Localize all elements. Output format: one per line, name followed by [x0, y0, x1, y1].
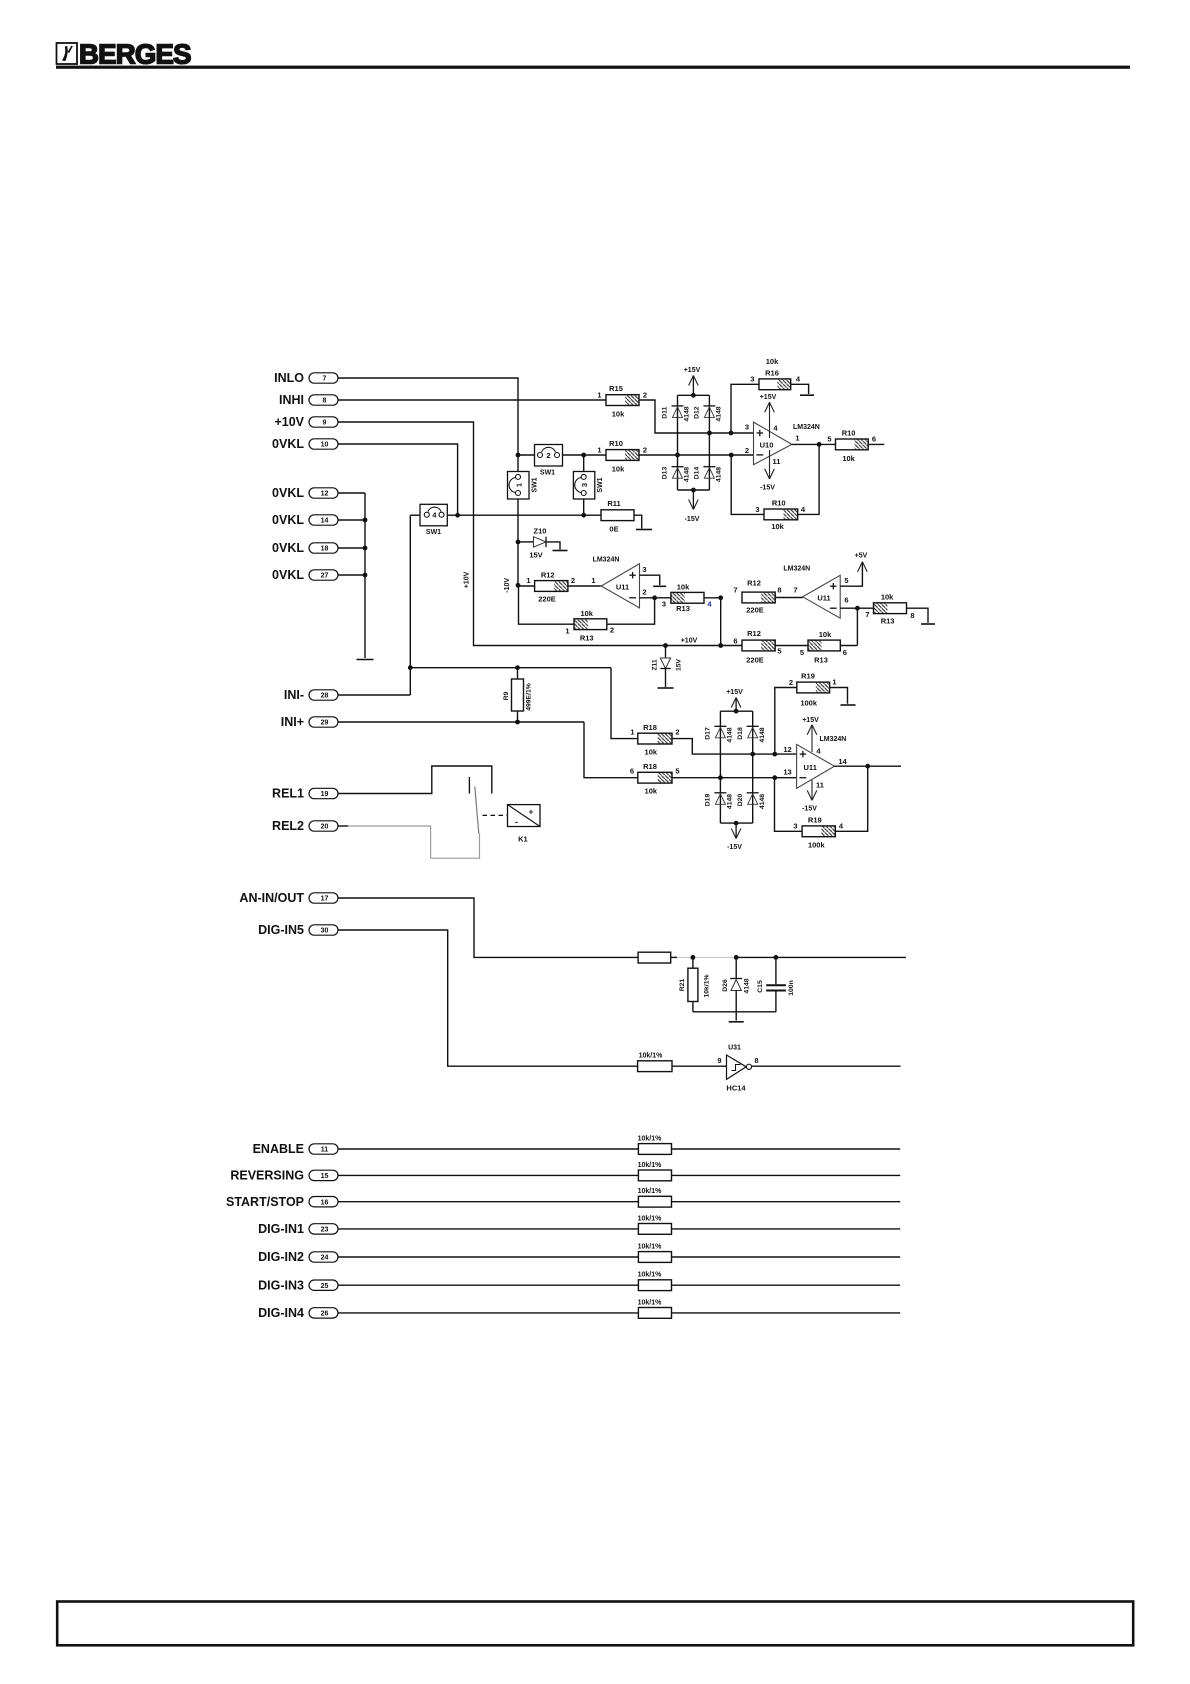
svg-text:18: 18: [321, 546, 329, 553]
node +10V on rail: [663, 638, 723, 648]
power +15V arrow top of bridge2: [726, 689, 743, 711]
svg-text:R12: R12: [747, 579, 761, 588]
svg-text:INLO: INLO: [274, 371, 304, 385]
resistor R13 10k pins 5-6: [800, 630, 857, 665]
svg-text:5: 5: [827, 435, 831, 444]
svg-text:R19: R19: [801, 672, 815, 681]
svg-text:BERGES: BERGES: [79, 39, 191, 70]
power +15V arrow top of bridge: [684, 367, 701, 395]
svg-text:K1: K1: [518, 835, 528, 844]
bottom rail R21 D26 C15: [693, 1011, 776, 1013]
capacitor C15 100n: [757, 957, 795, 1011]
connector REVERSING pin 15: [230, 1169, 338, 1183]
svg-text:1: 1: [795, 434, 799, 443]
U11B -input wire: [840, 606, 873, 611]
wire and resistor 10k/1% row DIG-IN1: [339, 1215, 901, 1234]
svg-text:+15V: +15V: [684, 367, 701, 374]
svg-text:D17: D17: [705, 727, 712, 740]
svg-text:SW1: SW1: [426, 529, 441, 536]
svg-text:2: 2: [643, 446, 647, 455]
svg-text:100k: 100k: [808, 841, 826, 850]
wire AN-IN/OUT to series resistor: [339, 898, 639, 957]
svg-text:10k/1%: 10k/1%: [638, 1272, 663, 1279]
svg-text:D13: D13: [662, 467, 669, 480]
svg-text:5: 5: [777, 647, 781, 656]
resistor R19 100k pins 2-1: [775, 672, 856, 755]
svg-text:+15V: +15V: [726, 689, 743, 696]
svg-text:D26: D26: [722, 979, 729, 992]
svg-text:14: 14: [838, 757, 847, 766]
svg-text:7: 7: [733, 586, 737, 595]
svg-text:U11: U11: [616, 583, 629, 592]
wire INLO to vertical bus x=518: [339, 378, 519, 585]
svg-text:4148: 4148: [727, 727, 734, 742]
svg-text:SW1: SW1: [597, 477, 604, 492]
switch SW1-4: [410, 504, 601, 536]
connector AN-IN/OUT pin 17: [239, 891, 338, 905]
svg-text:0VKL: 0VKL: [272, 541, 304, 555]
svg-text:4148: 4148: [716, 467, 723, 482]
svg-text:DIG-IN4: DIG-IN4: [258, 1306, 304, 1320]
svg-text:3: 3: [750, 375, 754, 384]
connector 0VKL pin 27: [272, 568, 338, 582]
svg-text:4148: 4148: [684, 467, 691, 482]
connector DIG-IN1 pin 23: [258, 1222, 338, 1236]
connector REL1 pin 19: [272, 787, 338, 801]
+10V vertical rail label: [464, 571, 471, 588]
wire and resistor 10k/1% row REVERSING: [339, 1162, 901, 1181]
svg-text:DIG-IN3: DIG-IN3: [258, 1278, 304, 1292]
svg-text:INI+: INI+: [281, 715, 304, 729]
wire REL2 gray path: [339, 826, 480, 858]
connector DIG-IN3 pin 25: [258, 1278, 338, 1292]
svg-text:0VKL: 0VKL: [272, 568, 304, 582]
svg-text:R16: R16: [765, 369, 779, 378]
wire INHI to R15: [339, 399, 607, 401]
U10 -15V power arrow pin 11: [760, 450, 780, 492]
svg-text:REL2: REL2: [272, 819, 304, 833]
svg-text:8: 8: [777, 586, 781, 595]
connector DIG-IN2 pin 24: [258, 1250, 338, 1264]
svg-text:2: 2: [571, 576, 575, 585]
BERGES logo box: [57, 43, 78, 64]
svg-text:2: 2: [643, 391, 647, 400]
svg-text:+15V: +15V: [760, 394, 777, 401]
svg-text:7: 7: [793, 586, 797, 595]
svg-text:4148: 4148: [759, 727, 766, 742]
svg-text:+: +: [529, 808, 534, 817]
svg-text:R13: R13: [580, 634, 594, 643]
svg-text:REL1: REL1: [272, 787, 304, 801]
diode D11 4148: [662, 406, 691, 422]
inverter output wire: [752, 1056, 901, 1066]
U11A -input wire to R13 3-4: [640, 595, 671, 600]
svg-text:10k: 10k: [842, 454, 855, 463]
svg-text:10k: 10k: [645, 787, 658, 796]
resistor R10 10k input: [597, 439, 647, 474]
svg-text:LM324N: LM324N: [783, 566, 810, 573]
connector 0VKL pin 10: [272, 437, 338, 451]
svg-text:6: 6: [872, 435, 876, 444]
wire and resistor 10k/1% row ENABLE: [339, 1136, 901, 1155]
svg-text:-10V: -10V: [504, 578, 511, 593]
svg-text:2: 2: [642, 588, 646, 597]
svg-text:3: 3: [662, 600, 666, 609]
resistor R9 499E/1%: [503, 668, 533, 722]
svg-text:2: 2: [610, 626, 614, 635]
U10 +15V power arrow pin 4: [760, 394, 779, 438]
svg-text:10k: 10k: [645, 748, 658, 757]
wire +10V down to +10V rail: [339, 422, 743, 646]
svg-text:R10: R10: [772, 499, 786, 508]
inverter U31 HC14: [726, 1045, 751, 1093]
svg-text:27: 27: [321, 573, 329, 580]
connector DIG-IN4 pin 26: [258, 1306, 338, 1320]
diode D19 4148: [705, 793, 734, 809]
INI+ rail wiring: [339, 720, 638, 778]
svg-text:-15V: -15V: [727, 844, 742, 851]
svg-text:10k: 10k: [819, 630, 832, 639]
svg-text:4148: 4148: [716, 406, 723, 421]
svg-text:6: 6: [733, 637, 737, 646]
svg-text:LM324N: LM324N: [793, 424, 820, 431]
wire R18 pin5 to stage3 -input: [672, 775, 797, 780]
connector +10V pin 9: [274, 415, 338, 429]
svg-text:+10V: +10V: [464, 571, 471, 588]
header rule: [56, 66, 1130, 69]
resistor R13 10k pins 7-8: [865, 593, 935, 626]
svg-text:INI-: INI-: [284, 688, 304, 702]
svg-text:ENABLE: ENABLE: [253, 1142, 304, 1156]
relay contact arm: [475, 787, 479, 834]
svg-text:4148: 4148: [744, 978, 751, 993]
svg-text:100n: 100n: [788, 980, 795, 996]
resistor R13 10k pins 3-4: [662, 583, 723, 614]
svg-text:13: 13: [783, 768, 791, 777]
svg-text:12: 12: [321, 491, 329, 498]
svg-text:28: 28: [321, 693, 329, 700]
svg-text:SW1: SW1: [540, 470, 555, 477]
clamp bridge rails D17-D20: [720, 709, 752, 826]
svg-text:-: -: [515, 817, 518, 827]
connector INHI pin 8: [279, 393, 338, 407]
svg-text:1: 1: [565, 627, 569, 636]
wire R10 pin2 to clamp rail2: [639, 454, 754, 456]
svg-text:4148: 4148: [727, 794, 734, 809]
svg-text:11: 11: [321, 1147, 329, 1154]
U11A +input ground: [640, 575, 667, 586]
svg-text:U11: U11: [804, 763, 817, 772]
svg-text:6: 6: [630, 767, 634, 776]
op-amp U11D LM324N: [783, 736, 847, 788]
connector INLO pin 7: [274, 371, 338, 385]
svg-text:0E: 0E: [609, 525, 618, 534]
svg-text:D19: D19: [705, 794, 712, 807]
svg-text:30: 30: [321, 928, 329, 935]
svg-text:7: 7: [865, 610, 869, 619]
diode D17 4148: [705, 726, 734, 742]
resistor R18 10k pins 6-5: [630, 762, 680, 796]
-10V node label: [504, 578, 520, 593]
node stage2 input vertical: [720, 598, 722, 646]
svg-text:9: 9: [717, 1056, 721, 1065]
svg-text:10k/1%: 10k/1%: [638, 1215, 663, 1222]
feedback resistor R13 10k pins 1-2: [519, 585, 655, 642]
svg-text:29: 29: [321, 720, 329, 727]
diode D26 4148: [722, 957, 751, 1020]
U10 output wire and resistor R10 10k output: [792, 429, 885, 464]
svg-text:DIG-IN5: DIG-IN5: [258, 923, 304, 937]
resistor R12 220E stage1: [518, 571, 601, 604]
svg-text:HC14: HC14: [726, 1084, 746, 1093]
svg-text:5: 5: [675, 767, 679, 776]
svg-text:R10: R10: [609, 439, 623, 448]
U11D output wire: [834, 764, 901, 769]
op-amp U10 LM324N: [745, 422, 820, 465]
ground below D26: [729, 1021, 744, 1023]
svg-text:8: 8: [754, 1056, 758, 1065]
op-amp U11A LM324N mirrored: [593, 557, 647, 608]
svg-text:Z10: Z10: [534, 527, 547, 536]
switch SW1-1: [508, 472, 539, 500]
svg-text:5: 5: [844, 576, 848, 585]
svg-text:10k/1%: 10k/1%: [638, 1188, 663, 1195]
svg-text:Z11: Z11: [652, 659, 659, 671]
svg-text:25: 25: [321, 1283, 329, 1290]
switch SW1-3: [573, 455, 604, 515]
zener diode Z11 15V: [652, 646, 683, 689]
svg-text:8: 8: [910, 611, 914, 620]
dashed actuation link: [483, 814, 508, 816]
svg-text:REVERSING: REVERSING: [230, 1169, 304, 1183]
U11D +15V power arrow pin 4: [802, 717, 821, 756]
svg-text:10k/1%: 10k/1%: [638, 1244, 663, 1251]
svg-text:1: 1: [591, 576, 595, 585]
wire and resistor 10k/1% row START/STOP: [339, 1188, 901, 1207]
connector START/STOP pin 16: [226, 1195, 338, 1209]
svg-text:5: 5: [800, 648, 804, 657]
svg-text:220E: 220E: [538, 595, 556, 604]
svg-text:1: 1: [832, 678, 836, 687]
svg-text:10k: 10k: [766, 357, 779, 366]
wire R15 pin2 to clamp rail1: [639, 400, 754, 433]
svg-text:12: 12: [783, 745, 791, 754]
power +5V arrow on U11B +input: [840, 553, 867, 587]
svg-text:R13: R13: [814, 656, 828, 665]
resistor R16 10k feedback: [729, 357, 814, 435]
connector 0VKL pin 14: [272, 513, 338, 527]
svg-text:U31: U31: [728, 1045, 741, 1052]
resistor R18 10k pins 1-2: [630, 723, 679, 757]
svg-text:2: 2: [745, 446, 749, 455]
svg-text:LM324N: LM324N: [819, 736, 846, 743]
svg-text:6: 6: [843, 648, 847, 657]
connector 0VKL pin 18: [272, 541, 338, 555]
ground of 0VKL bus: [357, 659, 374, 661]
svg-text:3: 3: [793, 822, 797, 831]
svg-text:15: 15: [321, 1173, 329, 1180]
svg-text:0VKL: 0VKL: [272, 513, 304, 527]
svg-text:10k/1%: 10k/1%: [639, 1053, 664, 1060]
svg-text:D11: D11: [662, 406, 669, 418]
svg-text:R19: R19: [808, 816, 822, 825]
svg-text:1: 1: [597, 446, 601, 455]
svg-text:3: 3: [580, 483, 589, 487]
connector INI+ pin 29: [281, 715, 338, 729]
diode D18 4148: [737, 726, 766, 742]
svg-text:15V: 15V: [676, 658, 683, 671]
svg-text:R13: R13: [881, 617, 895, 626]
resistor R12 220E pins 7-8: [733, 579, 802, 615]
connector 0VKL pin 12: [272, 486, 338, 500]
svg-text:+10V: +10V: [274, 415, 304, 429]
relay coil K1: [508, 805, 541, 844]
connector REL2 pin 20: [272, 819, 338, 833]
svg-text:R12: R12: [541, 571, 555, 580]
0VKL bus wires: [339, 493, 368, 658]
ground after R11: [634, 515, 652, 529]
svg-text:DIG-IN1: DIG-IN1: [258, 1222, 304, 1236]
wire DIG-IN5 to input resistor: [339, 930, 638, 1066]
svg-text:C15: C15: [757, 980, 764, 993]
svg-text:10k: 10k: [881, 593, 894, 602]
svg-text:1: 1: [630, 728, 634, 737]
svg-text:D20: D20: [737, 794, 744, 807]
svg-text:+10V: +10V: [681, 638, 698, 645]
svg-text:R13: R13: [676, 604, 690, 613]
wire SW1-4 left down to INI- node: [409, 515, 411, 695]
svg-text:11: 11: [773, 457, 781, 466]
op-amp U11B LM324N mirrored: [783, 566, 848, 619]
svg-text:D12: D12: [694, 406, 701, 419]
svg-text:10k/1%: 10k/1%: [638, 1299, 663, 1306]
svg-text:0VKL: 0VKL: [272, 437, 304, 451]
resistor R15 10k: [597, 384, 647, 419]
svg-text:1: 1: [526, 576, 530, 585]
svg-text:10k/1%: 10k/1%: [638, 1136, 663, 1143]
wire and resistor 10k/1% row DIG-IN2: [339, 1244, 901, 1263]
svg-text:6: 6: [844, 596, 848, 605]
svg-text:10: 10: [321, 442, 329, 449]
svg-text:1: 1: [597, 391, 601, 400]
svg-text:D14: D14: [694, 467, 701, 480]
svg-text:-15V: -15V: [802, 806, 817, 813]
svg-text:16: 16: [321, 1199, 329, 1206]
wire and resistor 10k/1% row DIG-IN4: [339, 1299, 901, 1318]
svg-text:D18: D18: [737, 727, 744, 740]
svg-text:15V: 15V: [529, 551, 542, 560]
wire after series resistor (faint) and output line: [671, 955, 906, 960]
svg-text:24: 24: [321, 1255, 329, 1262]
diode D14 4148: [694, 467, 723, 483]
wire R18 pin2 to stage3 +input: [672, 739, 797, 757]
diode D12 4148: [694, 406, 723, 422]
connector INI- pin 28: [284, 688, 338, 702]
svg-text:10k/1%: 10k/1%: [704, 974, 711, 997]
svg-text:3: 3: [642, 565, 646, 574]
svg-text:220E: 220E: [746, 606, 764, 615]
svg-text:220E: 220E: [746, 656, 764, 665]
svg-text:R12: R12: [747, 629, 761, 638]
svg-text:SW1: SW1: [532, 477, 539, 492]
svg-text:R21: R21: [679, 979, 686, 992]
svg-text:DIG-IN2: DIG-IN2: [258, 1250, 304, 1264]
svg-text:10k: 10k: [771, 522, 784, 531]
svg-text:3: 3: [755, 505, 759, 514]
svg-text:23: 23: [321, 1227, 329, 1234]
wire and resistor 10k/1% row DIG-IN3: [339, 1272, 901, 1291]
svg-text:10k: 10k: [612, 465, 625, 474]
svg-text:2: 2: [546, 451, 550, 460]
svg-text:+15V: +15V: [802, 717, 819, 724]
svg-text:9: 9: [323, 420, 327, 427]
svg-text:R15: R15: [609, 384, 623, 393]
svg-text:AN-IN/OUT: AN-IN/OUT: [239, 891, 304, 905]
svg-text:INHI: INHI: [279, 393, 304, 407]
wire REL1 to contact: [339, 766, 492, 794]
connector ENABLE pin 11: [253, 1142, 338, 1156]
svg-text:4148: 4148: [684, 406, 691, 421]
svg-text:3: 3: [745, 423, 749, 432]
feedback resistor R19 100k pins 3-4: [775, 766, 868, 849]
resistor R12 220E pins 6-5: [733, 629, 808, 665]
svg-text:R11: R11: [607, 499, 620, 508]
svg-text:+5V: +5V: [855, 553, 868, 560]
svg-text:R9: R9: [503, 691, 510, 700]
diode D13 4148: [662, 467, 691, 483]
resistor R21 10k/1%: [679, 957, 711, 1011]
svg-text:10k: 10k: [580, 609, 593, 618]
wire stage2 -input down to lower path: [856, 608, 858, 645]
series resistor AN-IN/OUT: [638, 952, 671, 963]
svg-text:14: 14: [321, 518, 329, 525]
svg-text:17: 17: [321, 896, 329, 903]
connector DIG-IN5 pin 30: [258, 923, 338, 937]
svg-text:499E/1%: 499E/1%: [526, 683, 533, 711]
svg-text:1: 1: [515, 483, 524, 487]
svg-text:R18: R18: [643, 723, 657, 732]
svg-text:U10: U10: [760, 441, 774, 450]
INI- rail wiring: [339, 665, 638, 738]
relay contact fixed terminal: [468, 777, 470, 794]
switch SW1-2: [516, 445, 606, 477]
svg-text:START/STOP: START/STOP: [226, 1195, 304, 1209]
diode Z10 15V: [516, 527, 568, 560]
svg-text:11: 11: [816, 781, 824, 790]
U11D -15V power arrow pin 11: [802, 780, 824, 813]
svg-text:-15V: -15V: [760, 485, 775, 492]
svg-text:LM324N: LM324N: [593, 557, 620, 564]
svg-text:8: 8: [323, 398, 327, 405]
svg-text:26: 26: [321, 1311, 329, 1318]
svg-text:2: 2: [675, 728, 679, 737]
clamp bridge rails D11-D14: [675, 393, 712, 493]
svg-text:20: 20: [321, 824, 329, 831]
svg-text:10k: 10k: [612, 410, 625, 419]
svg-text:7: 7: [323, 376, 327, 383]
wire 0VKL pin10 down to SW1-4 line: [339, 444, 458, 515]
svg-text:4148: 4148: [759, 794, 766, 809]
wire to inverter U31: [672, 1056, 727, 1066]
svg-text:R10: R10: [842, 429, 856, 438]
power -15V arrow bottom of bridge2: [727, 823, 742, 851]
resistor 10k/1% DIG-IN5: [638, 1053, 672, 1072]
resistor R11 0E: [601, 499, 634, 534]
svg-text:100k: 100k: [800, 699, 818, 708]
svg-text:U11: U11: [817, 594, 830, 603]
svg-text:-15V: -15V: [685, 516, 700, 523]
svg-text:R18: R18: [643, 762, 657, 771]
